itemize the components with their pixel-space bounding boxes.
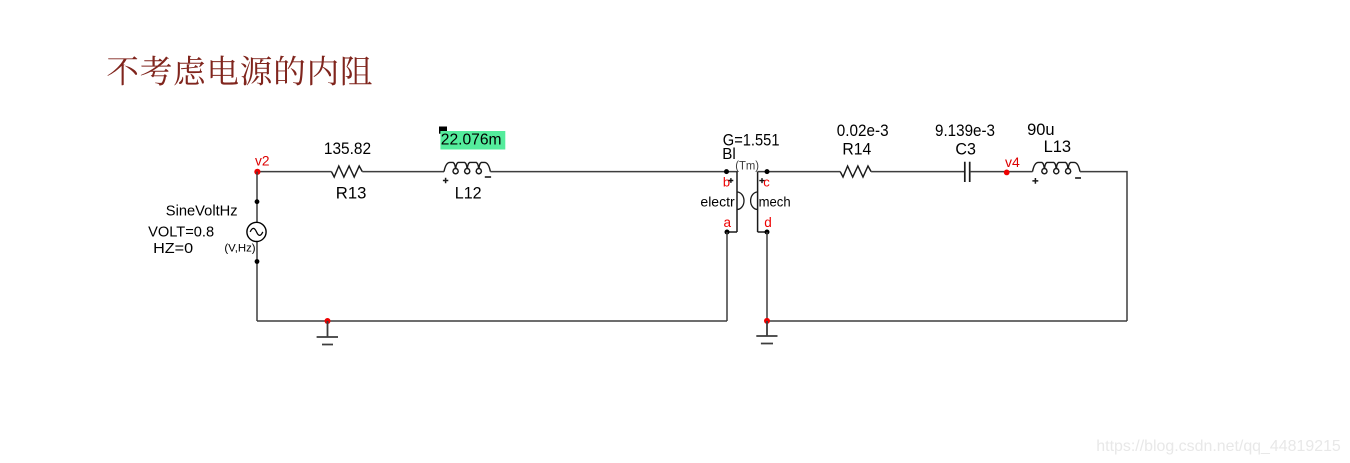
wire: L13 right and down xyxy=(1080,172,1127,321)
svg-text:SineVoltHz: SineVoltHz xyxy=(166,203,238,219)
svg-text:https://blog.csdn.net/qq_44819: https://blog.csdn.net/qq_44819215 xyxy=(1096,438,1341,455)
ground 1 xyxy=(317,321,338,345)
wire: L12 to transformer pin b xyxy=(490,171,737,173)
label L12 xyxy=(455,184,482,202)
ground 2 xyxy=(756,321,777,344)
label L13 xyxy=(1044,138,1072,156)
pin c label xyxy=(759,174,770,189)
svg-text:b: b xyxy=(723,174,730,189)
highlighted measurement 22.076m xyxy=(440,131,505,150)
transformer right arc xyxy=(751,192,758,210)
L12 minus terminal xyxy=(485,176,491,178)
label C3 xyxy=(955,140,976,158)
bottom rail left net xyxy=(257,320,727,322)
L13 minus terminal xyxy=(1075,177,1081,179)
inductor L12 xyxy=(444,162,490,173)
label SineVoltHz xyxy=(166,203,238,219)
svg-text:L12: L12 xyxy=(455,184,482,202)
voltage source V1 circle xyxy=(247,222,266,241)
pin a label xyxy=(724,215,732,230)
L13 plus terminal xyxy=(1032,178,1038,184)
node v4 xyxy=(1004,155,1021,175)
wire: R14 to C3 xyxy=(871,171,964,173)
label electr xyxy=(700,195,735,210)
svg-text:(V,Hz): (V,Hz) xyxy=(224,243,255,255)
label R14 xyxy=(842,140,871,158)
label HZ=0 xyxy=(153,240,193,257)
ground 2 node dot xyxy=(764,318,770,324)
svg-text:9.139e-3: 9.139e-3 xyxy=(935,122,995,140)
svg-text:a: a xyxy=(724,215,732,230)
pin d dot xyxy=(765,230,770,235)
label 135.82 (value of R13) xyxy=(324,140,371,158)
junction pin b dot xyxy=(724,169,729,174)
L12 plus terminal xyxy=(443,178,448,183)
wire: pin a down to left rail xyxy=(726,232,728,321)
title 不考虑电源的内阻 xyxy=(108,56,372,86)
label mech xyxy=(759,195,791,210)
label R13 xyxy=(336,184,367,202)
svg-text:90u: 90u xyxy=(1027,121,1055,139)
junction pin c dot xyxy=(765,169,770,174)
svg-text:electr: electr xyxy=(700,195,735,210)
svg-text:v2: v2 xyxy=(255,154,270,169)
label (V,Hz) xyxy=(224,243,255,255)
source bottom pin dot xyxy=(255,259,260,264)
wire: pin d down to right rail xyxy=(766,232,768,321)
capacitor C3 xyxy=(965,162,970,182)
probe marker square xyxy=(439,127,447,134)
ground 1 node dot xyxy=(325,318,331,324)
source top pin dot xyxy=(255,199,260,204)
transformer bottom right jog wire xyxy=(758,231,767,233)
bottom rail right net xyxy=(767,320,1127,322)
wire: C3 to L13 xyxy=(970,171,1033,173)
svg-text:Bl: Bl xyxy=(722,146,736,163)
resistor R13 xyxy=(331,166,362,177)
svg-text:R13: R13 xyxy=(336,184,367,202)
svg-text:L13: L13 xyxy=(1044,138,1072,156)
transformer left arc xyxy=(737,192,744,210)
pin a dot xyxy=(725,230,730,235)
pin b label xyxy=(723,174,733,189)
label 90u xyxy=(1027,121,1055,139)
label (Tm) xyxy=(735,161,759,173)
svg-text:VOLT=0.8: VOLT=0.8 xyxy=(148,223,214,240)
pin d label xyxy=(764,215,772,230)
svg-text:135.82: 135.82 xyxy=(324,140,371,158)
wire: transformer pin c to R14 xyxy=(758,171,841,173)
wire: R13 to L12 xyxy=(362,171,444,173)
svg-text:C3: C3 xyxy=(955,140,976,158)
svg-text:HZ=0: HZ=0 xyxy=(153,240,193,257)
svg-text:v4: v4 xyxy=(1005,155,1020,170)
node v2 xyxy=(254,154,269,175)
label VOLT=0.8 xyxy=(148,223,214,240)
label 9.139e-3 xyxy=(935,122,995,140)
transformer bottom left jog wire xyxy=(727,231,737,233)
label Bl xyxy=(722,146,736,163)
wire: v2 down to source xyxy=(256,172,258,321)
resistor R14 xyxy=(840,166,871,177)
label G=1.551 xyxy=(723,131,780,149)
svg-text:mech: mech xyxy=(759,195,791,210)
svg-text:d: d xyxy=(764,215,772,230)
watermark xyxy=(1096,438,1341,455)
wire: v2 to R13 xyxy=(257,171,331,173)
svg-text:c: c xyxy=(763,174,770,189)
transformer left bar xyxy=(736,172,738,232)
svg-text:22.076m: 22.076m xyxy=(441,132,502,149)
svg-text:(Tm): (Tm) xyxy=(735,161,759,173)
transformer right bar xyxy=(757,172,759,232)
label 0.02e-3 xyxy=(837,122,889,140)
svg-text:R14: R14 xyxy=(842,140,871,158)
svg-text:0.02e-3: 0.02e-3 xyxy=(837,122,889,140)
inductor L13 xyxy=(1033,162,1081,173)
